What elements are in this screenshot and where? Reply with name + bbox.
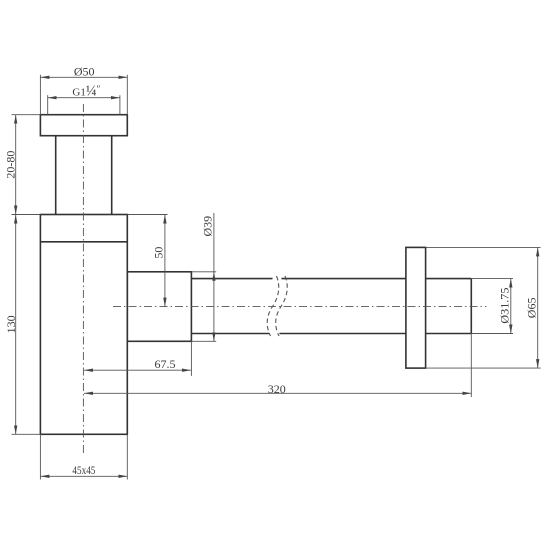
dimension D31.75 (471, 279, 513, 334)
dimension 67.5 (84, 341, 191, 376)
svg-text:130: 130 (4, 315, 18, 333)
svg-text:320: 320 (268, 382, 286, 396)
pipe break symbol (267, 276, 279, 336)
svg-text:G1¼″: G1¼″ (72, 83, 100, 99)
outlet connector (127, 272, 191, 342)
svg-text:Ø65: Ø65 (524, 298, 538, 319)
vertical centerline (82, 104, 84, 455)
inlet pipe right edge (111, 136, 113, 215)
dimension 130 (4, 215, 41, 435)
svg-text:Ø31.75: Ø31.75 (498, 288, 512, 324)
dimension D39 (191, 213, 216, 341)
svg-text:45x45: 45x45 (72, 463, 95, 477)
svg-text:20-80: 20-80 (4, 151, 18, 179)
trap body lid line (40, 241, 127, 243)
dimension 50 (127, 215, 167, 307)
svg-text:Ø39: Ø39 (200, 216, 214, 237)
svg-text:50: 50 (151, 247, 165, 259)
horizontal pipe top edge (191, 278, 272, 280)
dimension 320 (84, 334, 471, 398)
dimension G1 1/4 inch (48, 83, 120, 114)
horizontal pipe bottom edge (191, 333, 269, 335)
dimension D65 (426, 247, 541, 368)
pipe end (470, 279, 472, 334)
dimension 45x45 (40, 434, 127, 479)
dimension 20-80 (4, 115, 41, 215)
svg-text:Ø50: Ø50 (74, 65, 95, 79)
wall flange (406, 247, 426, 368)
inlet pipe left edge (55, 136, 57, 215)
trap body (40, 215, 127, 435)
dimension D50 (40, 65, 127, 115)
horizontal centerline (113, 306, 487, 308)
top flange (inlet nut) (40, 115, 127, 136)
svg-text:67.5: 67.5 (155, 357, 176, 371)
